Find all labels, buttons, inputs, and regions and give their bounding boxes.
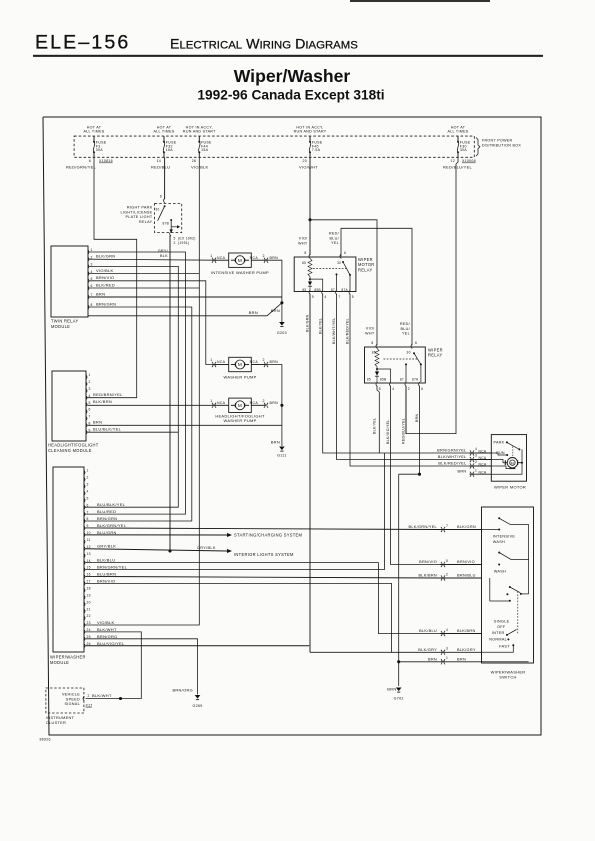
- svg-text:ALL TIMES: ALL TIMES: [153, 130, 174, 134]
- svg-text:RED/BRN/YEL: RED/BRN/YEL: [93, 392, 123, 397]
- svg-text:BLK/BLU: BLK/BLU: [419, 629, 437, 633]
- svg-text:INTER: INTER: [492, 631, 505, 635]
- svg-text:RELAY: RELAY: [139, 220, 153, 224]
- svg-text:7: 7: [89, 415, 91, 419]
- svg-text:WASHER PUMP: WASHER PUMP: [223, 418, 256, 423]
- svg-text:BRN: BRN: [457, 470, 466, 474]
- svg-text:BLK/GRN: BLK/GRN: [96, 254, 115, 259]
- svg-text:BRN/GRN: BRN/GRN: [96, 301, 116, 306]
- svg-text:RIGHT PARK: RIGHT PARK: [127, 206, 153, 210]
- svg-text:1: 1: [87, 469, 89, 473]
- svg-text:20: 20: [87, 600, 91, 604]
- svg-text:WHT: WHT: [298, 241, 308, 245]
- svg-text:2: 2: [89, 380, 91, 384]
- svg-text:DISTRIBUTION BOX: DISTRIBUTION BOX: [482, 143, 521, 147]
- svg-text:YEL: YEL: [402, 332, 410, 336]
- svg-text:(1991): (1991): [178, 241, 189, 245]
- svg-text:SINGLE: SINGLE: [494, 620, 510, 624]
- svg-text:NCA: NCA: [479, 471, 487, 475]
- svg-text:NORMAL: NORMAL: [489, 637, 507, 641]
- svg-text:87A: 87A: [341, 288, 348, 292]
- svg-text:HEADLIGHT/FOGLIGHT: HEADLIGHT/FOGLIGHT: [48, 443, 99, 448]
- svg-text:FRONT POWER: FRONT POWER: [482, 139, 513, 143]
- svg-text:WASH: WASH: [493, 540, 505, 544]
- svg-text:CLUSTER: CLUSTER: [46, 721, 66, 725]
- svg-text:5: 5: [87, 496, 89, 500]
- svg-text:RUN AND START: RUN AND START: [183, 130, 216, 134]
- svg-text:WIPER/WASHER: WIPER/WASHER: [50, 655, 86, 660]
- svg-text:BLK/RED/YEL: BLK/RED/YEL: [438, 461, 467, 465]
- svg-text:VIO/BLK: VIO/BLK: [96, 268, 114, 273]
- svg-text:BRN: BRN: [457, 657, 466, 661]
- svg-text:6: 6: [160, 195, 162, 199]
- svg-text:BLK/GRN/YEL: BLK/GRN/YEL: [408, 525, 437, 529]
- svg-text:2: 2: [446, 572, 448, 576]
- svg-text:NCA: NCA: [217, 256, 226, 260]
- svg-text:Wiper/Washer: Wiper/Washer: [234, 66, 351, 86]
- svg-text:INTENSIVE: INTENSIVE: [493, 534, 516, 538]
- svg-text:3: 3: [446, 647, 448, 651]
- svg-text:BRN: BRN: [270, 360, 279, 364]
- svg-text:NCA: NCA: [250, 360, 259, 364]
- svg-text:WASHER PUMP: WASHER PUMP: [223, 375, 256, 380]
- svg-text:2: 2: [174, 241, 176, 245]
- svg-text:20: 20: [302, 159, 307, 163]
- svg-text:M: M: [238, 403, 242, 408]
- svg-text:3: 3: [87, 483, 89, 487]
- svg-text:6: 6: [415, 341, 417, 345]
- svg-text:SPEED: SPEED: [66, 697, 80, 701]
- svg-text:1: 1: [446, 656, 448, 660]
- svg-text:30: 30: [337, 261, 341, 265]
- svg-text:87B: 87B: [163, 221, 170, 225]
- svg-text:SWITCH: SWITCH: [499, 675, 516, 680]
- svg-text:BLU/GRN: BLU/GRN: [97, 530, 117, 535]
- svg-text:BLK: BLK: [160, 254, 168, 258]
- svg-text:SIGNAL: SIGNAL: [64, 702, 80, 706]
- svg-text:BLK/GRN: BLK/GRN: [457, 525, 476, 529]
- svg-text:BLU/: BLU/: [400, 327, 410, 331]
- svg-text:9: 9: [312, 295, 314, 299]
- svg-text:NCA: NCA: [479, 456, 487, 460]
- svg-text:VIO/: VIO/: [299, 237, 308, 241]
- svg-text:TWIN RELAY: TWIN RELAY: [51, 319, 79, 324]
- svg-text:BRN: BRN: [415, 414, 419, 422]
- svg-text:2: 2: [263, 358, 265, 362]
- svg-text:VIO/WHT: VIO/WHT: [299, 164, 318, 169]
- svg-text:85: 85: [367, 378, 371, 382]
- svg-text:18: 18: [87, 587, 91, 591]
- svg-text:1992-96 Canada Except 318ti: 1992-96 Canada Except 318ti: [197, 88, 384, 103]
- svg-text:4: 4: [87, 489, 89, 493]
- svg-text:8: 8: [87, 517, 89, 521]
- svg-text:BLK/WHT: BLK/WHT: [92, 693, 112, 698]
- svg-text:12: 12: [450, 159, 455, 163]
- svg-text:BLK/RED: BLK/RED: [96, 282, 115, 287]
- svg-text:ALL TIMES: ALL TIMES: [83, 130, 104, 134]
- svg-text:87A: 87A: [412, 378, 419, 382]
- svg-text:NCA: NCA: [479, 449, 487, 453]
- svg-text:1: 1: [89, 373, 91, 377]
- svg-text:BLK/BLU: BLK/BLU: [97, 558, 115, 563]
- svg-text:RED/BLU: RED/BLU: [151, 164, 170, 169]
- svg-text:7: 7: [87, 510, 89, 514]
- svg-text:2: 2: [263, 399, 265, 403]
- svg-text:23: 23: [87, 621, 91, 625]
- svg-text:16A: 16A: [166, 148, 174, 152]
- svg-text:19: 19: [87, 593, 91, 597]
- svg-text:2: 2: [88, 694, 90, 698]
- svg-text:WHT: WHT: [365, 331, 375, 335]
- svg-text:3: 3: [89, 387, 91, 391]
- svg-text:X10816: X10816: [99, 159, 113, 163]
- svg-text:G111: G111: [277, 454, 287, 458]
- svg-text:BRN: BRN: [271, 440, 280, 445]
- svg-text:5: 5: [352, 295, 354, 299]
- svg-text:BLK/WHT/YEL: BLK/WHT/YEL: [438, 455, 467, 459]
- svg-text:85: 85: [302, 261, 306, 265]
- svg-text:30: 30: [155, 208, 159, 212]
- svg-text:ALL TIMES: ALL TIMES: [447, 130, 468, 134]
- svg-text:6: 6: [87, 503, 89, 507]
- svg-text:BRN/VIO: BRN/VIO: [96, 275, 114, 280]
- svg-text:BLK/GRY: BLK/GRY: [418, 648, 437, 652]
- svg-text:BLK/WHT/YEL: BLK/WHT/YEL: [332, 318, 336, 344]
- svg-text:1: 1: [210, 399, 212, 403]
- svg-text:VIO/BLK: VIO/BLK: [97, 620, 115, 625]
- svg-text:7.5A: 7.5A: [312, 148, 321, 152]
- svg-text:BRN/BLU: BRN/BLU: [457, 574, 476, 578]
- svg-text:BRN: BRN: [387, 687, 396, 692]
- svg-text:BRN: BRN: [270, 256, 279, 260]
- svg-text:VEHICLE: VEHICLE: [62, 693, 80, 697]
- svg-text:30A: 30A: [460, 148, 468, 152]
- svg-text:BRN: BRN: [93, 420, 102, 425]
- svg-text:BLU/BLK/YEL: BLU/BLK/YEL: [93, 427, 122, 432]
- svg-text:BLK/BRN: BLK/BRN: [457, 629, 476, 633]
- svg-text:GRY/BLK: GRY/BLK: [197, 546, 216, 550]
- svg-text:BLK/GRY: BLK/GRY: [457, 648, 476, 652]
- svg-text:WASH: WASH: [494, 570, 506, 574]
- svg-text:BLK/VIO/YEL: BLK/VIO/YEL: [386, 419, 390, 444]
- svg-text:87: 87: [331, 288, 335, 292]
- svg-text:2: 2: [91, 255, 93, 259]
- svg-text:BLK/WHT: BLK/WHT: [97, 627, 117, 632]
- svg-text:6: 6: [89, 408, 91, 412]
- svg-text:GRY/BLK: GRY/BLK: [97, 544, 116, 549]
- svg-text:NCA: NCA: [217, 360, 226, 364]
- svg-text:BLK/YEL: BLK/YEL: [373, 418, 377, 434]
- svg-text:9: 9: [89, 428, 91, 432]
- svg-text:BLK/BRN: BLK/BRN: [418, 574, 437, 578]
- svg-text:8: 8: [371, 341, 373, 345]
- svg-text:4: 4: [446, 628, 448, 632]
- svg-text:M: M: [238, 258, 242, 263]
- svg-text:2: 2: [475, 460, 477, 464]
- svg-text:2: 2: [263, 254, 265, 258]
- svg-text:8: 8: [379, 387, 381, 391]
- svg-text:NCA: NCA: [479, 462, 487, 466]
- svg-text:4: 4: [325, 295, 327, 299]
- svg-text:G203: G203: [277, 331, 287, 335]
- svg-text:MODULE: MODULE: [51, 324, 70, 329]
- svg-text:BLU/RED: BLU/RED: [97, 509, 116, 514]
- svg-text:BLK/YEL: BLK/YEL: [318, 318, 322, 334]
- svg-text:BRN/ORG: BRN/ORG: [172, 688, 193, 693]
- svg-text:30A: 30A: [96, 148, 104, 152]
- svg-text:BRN: BRN: [249, 310, 258, 315]
- svg-text:8: 8: [304, 251, 306, 255]
- svg-text:2: 2: [408, 387, 410, 391]
- svg-text:NCA: NCA: [217, 401, 226, 405]
- svg-text:PARK: PARK: [494, 441, 505, 445]
- svg-text:ELECTRICAL WIRING DIAGRAMS: ELECTRICAL WIRING DIAGRAMS: [170, 37, 358, 53]
- svg-text:VIO/: VIO/: [366, 327, 375, 331]
- svg-text:M: M: [238, 362, 242, 367]
- svg-text:BLK/BRN: BLK/BRN: [93, 399, 112, 404]
- svg-text:X10008: X10008: [462, 159, 476, 163]
- svg-text:BRN: BRN: [271, 308, 280, 313]
- svg-text:BLU/VIO/YEL: BLU/VIO/YEL: [97, 641, 125, 646]
- svg-text:6: 6: [421, 387, 423, 391]
- svg-text:RED/GRN/YEL: RED/GRN/YEL: [66, 164, 97, 169]
- svg-text:RUN AND START: RUN AND START: [294, 130, 327, 134]
- svg-text:RED/: RED/: [400, 322, 411, 326]
- svg-text:WIPER MOTOR: WIPER MOTOR: [494, 484, 526, 489]
- svg-text:BRN/GRN/YEL: BRN/GRN/YEL: [437, 448, 467, 452]
- svg-text:5: 5: [89, 401, 91, 405]
- svg-text:22: 22: [87, 614, 91, 618]
- svg-text:(EX 1992): (EX 1992): [178, 236, 196, 240]
- svg-text:11: 11: [87, 538, 91, 542]
- svg-text:G702: G702: [394, 697, 404, 701]
- svg-text:21: 21: [87, 607, 91, 611]
- svg-text:BRN/ORG: BRN/ORG: [97, 634, 118, 639]
- svg-text:BRN/GRN/YEL: BRN/GRN/YEL: [97, 565, 128, 570]
- svg-text:BLU/BRN: BLU/BRN: [97, 571, 116, 576]
- svg-text:30: 30: [407, 351, 411, 355]
- svg-text:6: 6: [344, 251, 346, 255]
- svg-text:RELAY: RELAY: [358, 267, 373, 272]
- svg-text:BLK/GRN/YEL: BLK/GRN/YEL: [97, 523, 127, 528]
- svg-text:85B: 85B: [380, 378, 387, 382]
- svg-text:BLU/: BLU/: [329, 236, 339, 240]
- svg-text:BLK/RED/YEL: BLK/RED/YEL: [346, 318, 350, 344]
- svg-text:X17: X17: [86, 703, 93, 707]
- svg-text:4: 4: [475, 447, 477, 451]
- svg-text:26: 26: [192, 159, 197, 163]
- svg-text:BLK/GRN: BLK/GRN: [306, 314, 310, 332]
- svg-text:OFF: OFF: [497, 625, 506, 629]
- svg-text:RED/BLU/YEL: RED/BLU/YEL: [402, 418, 406, 444]
- svg-text:6: 6: [89, 159, 91, 163]
- svg-text:5: 5: [446, 559, 448, 563]
- svg-text:BRN: BRN: [428, 657, 437, 661]
- svg-text:INSTRUMENT: INSTRUMENT: [46, 716, 75, 720]
- svg-text:2: 2: [87, 476, 89, 480]
- svg-text:4: 4: [91, 270, 93, 274]
- svg-text:INTENSIVE WASHER PUMP: INTENSIVE WASHER PUMP: [211, 270, 269, 275]
- svg-text:NCA: NCA: [250, 256, 259, 260]
- svg-text:1: 1: [210, 254, 212, 258]
- svg-text:BRN/GRN: BRN/GRN: [97, 516, 117, 521]
- svg-text:RELAY: RELAY: [428, 353, 443, 358]
- svg-text:VIO/BLK: VIO/BLK: [191, 164, 209, 169]
- svg-text:4: 4: [89, 394, 91, 398]
- svg-text:BRN/VIO: BRN/VIO: [419, 560, 437, 564]
- svg-text:MODULE: MODULE: [50, 660, 69, 665]
- svg-text:PLATE LIGHT: PLATE LIGHT: [126, 215, 153, 219]
- svg-text:85: 85: [302, 288, 306, 292]
- svg-text:ELE–156: ELE–156: [35, 32, 130, 54]
- svg-text:1: 1: [475, 468, 477, 472]
- svg-text:BLU/BLK/YEL: BLU/BLK/YEL: [97, 502, 126, 507]
- svg-text:85B: 85B: [314, 288, 321, 292]
- svg-text:15A: 15A: [201, 148, 209, 152]
- svg-text:4: 4: [392, 387, 394, 391]
- svg-text:3: 3: [475, 454, 477, 458]
- svg-text:FAST: FAST: [499, 645, 510, 649]
- svg-text:13: 13: [87, 552, 91, 556]
- svg-text:YEL: YEL: [331, 241, 339, 245]
- svg-text:7: 7: [446, 524, 448, 528]
- svg-text:CLEANING MODULE: CLEANING MODULE: [48, 448, 92, 453]
- svg-text:5: 5: [174, 236, 176, 240]
- svg-text:G269: G269: [192, 704, 202, 708]
- svg-text:RED/: RED/: [329, 232, 340, 236]
- svg-text:RED/BLU/YEL: RED/BLU/YEL: [443, 164, 473, 169]
- svg-text:BRN/VIO: BRN/VIO: [97, 578, 115, 583]
- svg-text:BRN: BRN: [96, 291, 105, 296]
- svg-text:NCA: NCA: [250, 401, 259, 405]
- svg-text:87: 87: [400, 378, 404, 382]
- svg-text:86926: 86926: [40, 738, 51, 742]
- svg-text:7: 7: [338, 295, 340, 299]
- svg-text:1: 1: [91, 248, 93, 252]
- svg-text:BRN: BRN: [270, 401, 279, 405]
- svg-text:M: M: [511, 461, 514, 465]
- svg-text:1: 1: [210, 358, 212, 362]
- svg-text:BRN/VIO: BRN/VIO: [457, 560, 475, 564]
- svg-text:STARTING/CHARGING SYSTEM: STARTING/CHARGING SYSTEM: [234, 532, 303, 537]
- svg-text:14: 14: [156, 159, 161, 163]
- svg-text:INTERIOR LIGHTS SYSTEM: INTERIOR LIGHTS SYSTEM: [234, 552, 294, 557]
- svg-text:LIGHT/LICENSE: LIGHT/LICENSE: [120, 210, 152, 214]
